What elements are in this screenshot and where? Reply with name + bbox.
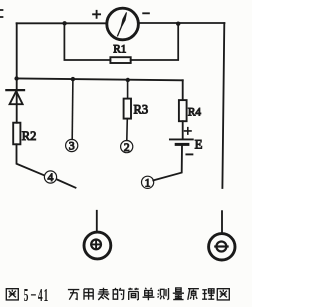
- caption char 用: [84, 289, 93, 300]
- resistor R1: [110, 57, 130, 63]
- wire left vertical: [16, 23, 18, 122]
- wire bus to contact 3: [71, 79, 74, 139]
- caption char 量: [173, 288, 184, 300]
- svg-text:4: 4: [38, 286, 43, 306]
- svg-text:4: 4: [48, 170, 54, 184]
- meter minus label: [143, 12, 149, 14]
- svg-text:E: E: [195, 137, 203, 151]
- caption char 理: [202, 289, 214, 299]
- node A junction dot: [62, 21, 66, 25]
- caption char 表: [98, 288, 110, 300]
- switch contact 2: [121, 140, 133, 154]
- caption char 单: [143, 288, 155, 300]
- wire bus corner to R4: [182, 80, 184, 100]
- caption figure number 5-41: [24, 284, 49, 306]
- caption char 的: [113, 288, 124, 300]
- caption char 万: [68, 290, 79, 300]
- wire battery to contact 1: [153, 146, 182, 181]
- wire meter right to node B: [140, 22, 225, 24]
- wire top (+ side): [17, 22, 106, 24]
- battery E negative plate: [176, 143, 188, 146]
- diode D1 triangle: [10, 91, 23, 104]
- label R1: [113, 44, 126, 56]
- switch wiper arm: [57, 180, 75, 188]
- resistor R4: [179, 100, 187, 121]
- battery minus label: [186, 153, 192, 155]
- op meter M (galvanometer): [107, 8, 139, 40]
- caption char 原: [188, 289, 199, 300]
- wire bus to R3: [127, 80, 129, 98]
- label R4: [188, 107, 202, 119]
- svg-text:R1: R1: [113, 44, 126, 56]
- terminal plus inner symbol: [91, 240, 101, 250]
- caption char 图: [217, 289, 229, 300]
- wire stub to minus terminal: [221, 211, 223, 232]
- label R2: [22, 129, 37, 143]
- terminal minus inner symbol: [215, 242, 227, 252]
- meter plus label: [93, 11, 100, 18]
- label E: [195, 137, 203, 151]
- page-edge mark top-left: [0, 10, 3, 17]
- svg-text:R4: R4: [188, 107, 202, 119]
- switch contact 4: [44, 170, 56, 184]
- wire stub to plus terminal: [96, 211, 98, 231]
- svg-text:–: –: [30, 284, 36, 304]
- wire R2 to contact 4: [17, 144, 44, 175]
- wire R4 to battery: [182, 121, 184, 137]
- node B junction dot: [176, 22, 180, 26]
- resistor R2: [13, 123, 20, 145]
- terminal plus outer: [84, 232, 111, 259]
- switch contact 3: [66, 139, 78, 153]
- svg-text:1: 1: [145, 176, 151, 190]
- switch contact 1: [142, 176, 154, 190]
- node bus-3 dot: [71, 77, 75, 81]
- node bus-left dot: [14, 76, 18, 80]
- svg-text:5: 5: [24, 286, 29, 306]
- svg-text:2: 2: [124, 140, 130, 154]
- wire R1 left drop: [64, 23, 110, 60]
- label R3: [134, 102, 149, 116]
- node bus-R3 dot: [126, 78, 130, 82]
- resistor R3: [124, 99, 131, 119]
- battery plus label: [185, 128, 191, 134]
- svg-text:1: 1: [43, 286, 48, 306]
- svg-text:3: 3: [69, 139, 75, 153]
- diode D1 cathode bar: [6, 89, 24, 91]
- wire right edge down: [222, 23, 224, 188]
- caption char 简: [128, 288, 138, 300]
- bus wire: [17, 78, 183, 80]
- caption char 测: [158, 288, 169, 300]
- caption char 图: [6, 289, 18, 300]
- wire R3 to contact 2: [126, 119, 129, 141]
- wire R1 right riser: [131, 24, 179, 60]
- svg-text:R2: R2: [22, 129, 37, 143]
- svg-text:R3: R3: [134, 102, 149, 116]
- battery E positive plate: [170, 138, 193, 140]
- terminal minus outer: [209, 234, 235, 260]
